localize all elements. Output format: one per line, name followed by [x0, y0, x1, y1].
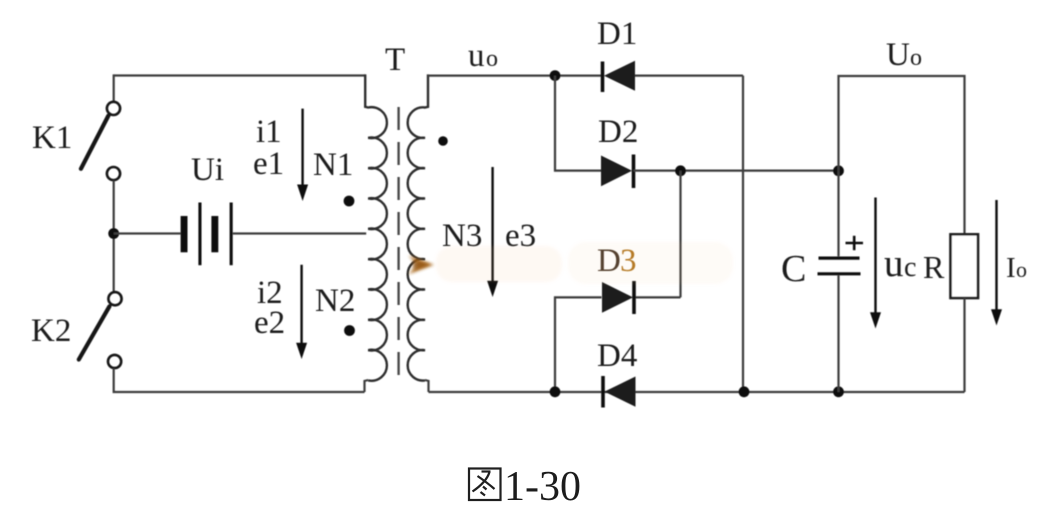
polarity dot N3	[438, 136, 448, 146]
arrow uc	[870, 198, 881, 329]
svg-text:u: u	[884, 242, 904, 285]
capacitor C	[818, 171, 861, 392]
svg-text:N2: N2	[315, 283, 355, 319]
polarity dot N2	[344, 325, 355, 336]
svg-text:1-30: 1-30	[504, 464, 581, 510]
svg-text:D2: D2	[598, 114, 638, 150]
node uo	[550, 70, 561, 81]
wire D3 up to D2 row	[679, 171, 681, 298]
arrow i1 current	[297, 109, 308, 201]
svg-text:U: U	[886, 37, 910, 73]
wire primary bottom vertical	[365, 380, 369, 392]
watermark smudge band	[436, 242, 733, 284]
diode D2	[601, 155, 634, 189]
wire K2 to bottom left	[114, 368, 365, 392]
switch K2	[79, 292, 122, 368]
wire uo node down to D2	[555, 76, 601, 171]
svg-text:K1: K1	[32, 120, 72, 156]
diode D1	[603, 61, 636, 92]
svg-text:N1: N1	[313, 147, 353, 183]
node D2-D3	[675, 165, 686, 176]
wire bottom rail	[429, 391, 965, 393]
wire D1 to right corner	[635, 74, 743, 76]
svg-text:u: u	[468, 38, 485, 74]
node junction left	[108, 228, 119, 239]
wire left top	[114, 74, 366, 76]
transformer core dashed	[397, 107, 399, 381]
node bottom C branch	[833, 386, 844, 397]
wire output loop top	[839, 76, 965, 234]
wire to battery	[114, 232, 181, 234]
node C top	[833, 165, 844, 176]
hanzi tu box	[469, 469, 501, 501]
caption 图1-30	[469, 464, 581, 510]
polarity dot N1	[344, 196, 355, 207]
svg-text:o: o	[486, 46, 498, 72]
switch K1	[81, 102, 120, 180]
resistor R	[951, 234, 979, 392]
arrow e3	[487, 167, 498, 297]
svg-text:e2: e2	[254, 305, 285, 341]
svg-text:i1: i1	[256, 114, 282, 150]
svg-text:e1: e1	[253, 146, 284, 182]
wire right corner down to bottom rail	[742, 76, 744, 392]
svg-text:c: c	[904, 252, 916, 283]
wire secondary top to D1	[428, 74, 601, 76]
wire D2 to C node	[634, 170, 839, 172]
diode D4	[603, 376, 636, 408]
svg-text:I: I	[1006, 252, 1016, 284]
node bottom uo return	[550, 386, 561, 397]
wire D3 row	[634, 296, 681, 298]
winding secondary N3	[408, 74, 428, 380]
arrow i2 current	[296, 265, 307, 359]
svg-text:D4: D4	[597, 338, 637, 374]
svg-text:Ui: Ui	[191, 152, 224, 188]
watermark orange arrow	[409, 256, 435, 275]
winding primary N1/N2	[365, 74, 387, 380]
plus sign	[846, 236, 864, 250]
diode D3	[602, 281, 634, 314]
wire battery to primary centre tap	[233, 232, 367, 234]
node bottom D1 branch	[739, 386, 750, 397]
wire left vertical to K1	[113, 74, 115, 101]
svg-text:T: T	[385, 42, 405, 78]
svg-text:R: R	[923, 249, 945, 285]
svg-text:D1: D1	[597, 16, 637, 52]
arrow Io	[991, 200, 1002, 326]
wire K1 to K2	[113, 180, 115, 291]
wire secondary bottom vertical	[425, 380, 429, 392]
svg-text:C: C	[781, 248, 806, 290]
battery Ui	[181, 203, 233, 266]
wire D3 to bottom rail	[555, 297, 602, 392]
svg-text:o: o	[1016, 257, 1027, 282]
svg-text:o: o	[910, 45, 922, 71]
svg-text:K2: K2	[31, 313, 71, 349]
